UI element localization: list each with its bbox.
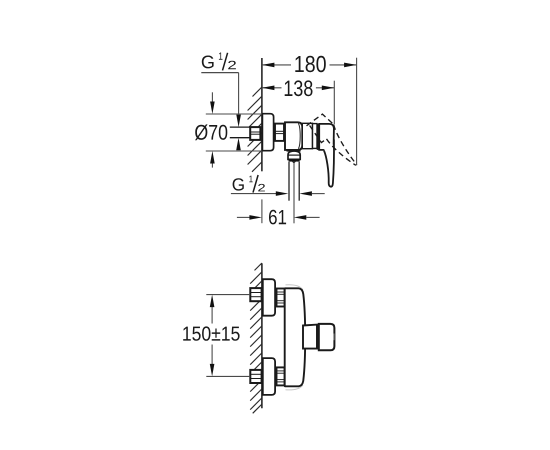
cartridge ring B (top view): [313, 124, 318, 149]
label G 1/2 (lower, to shower outlet): [231, 175, 325, 196]
adapter union nut upper (bottom view): [277, 289, 285, 307]
dimension 138: [262, 80, 334, 124]
adapter union nut (top view): [275, 124, 284, 141]
lever raised position (dashed, top view): [307, 114, 357, 165]
pipe centerline / extension (top view): [293, 163, 295, 223]
lever handle blade (top view): [324, 144, 334, 186]
outlet shoulder (top view): [287, 150, 301, 152]
lever handle end cap (bottom view): [319, 324, 335, 350]
escutcheon upper (bottom view): [263, 279, 275, 316]
wall extension line to dim 61: [261, 199, 263, 223]
escutcheon lower (bottom view): [263, 358, 275, 395]
dimension 61: [237, 210, 320, 225]
cartridge heavy right edge (bottom view): [316, 324, 318, 348]
handle cap heavy edge (top view): [317, 124, 320, 150]
outlet seal ring (filled, top view): [289, 159, 300, 161]
wall line (top view): [261, 58, 263, 171]
label G 1/2 (upper, to supply thread): [201, 53, 241, 151]
body cylinder arc (top view): [298, 123, 300, 148]
hose pipe (top view): [288, 162, 290, 201]
escutcheon flange (top view): [262, 114, 273, 151]
outlet hose union nut (top view): [288, 151, 300, 159]
supply hex nut upper (bottom view): [250, 288, 261, 301]
dimension Ø70: [195, 92, 262, 167]
wall line (bottom view): [261, 263, 263, 408]
mixer body (top view): [285, 122, 302, 150]
body top far-edge arc (faint, bottom view): [286, 285, 303, 290]
supply hex nut lower (bottom view): [250, 370, 261, 383]
handle cap notch (bottom view): [333, 334, 335, 341]
cartridge housing (bottom view): [303, 325, 317, 349]
supply hex nut (top view): [250, 127, 260, 140]
supply pipe stub (in wall, top view): [230, 127, 250, 138]
body bottom far-edge arc (faint, bottom view): [286, 385, 303, 390]
dimension 180: [262, 56, 357, 166]
wall hatching (top view): [248, 87, 262, 172]
lever handle cap (top view): [319, 124, 334, 150]
cartridge ring A (top view): [302, 123, 312, 148]
mixer body (bottom view): [285, 288, 306, 386]
dimension 150±15: [183, 295, 250, 377]
adapter union nut lower (bottom view): [277, 367, 285, 385]
wall hatching (bottom view): [250, 263, 262, 413]
